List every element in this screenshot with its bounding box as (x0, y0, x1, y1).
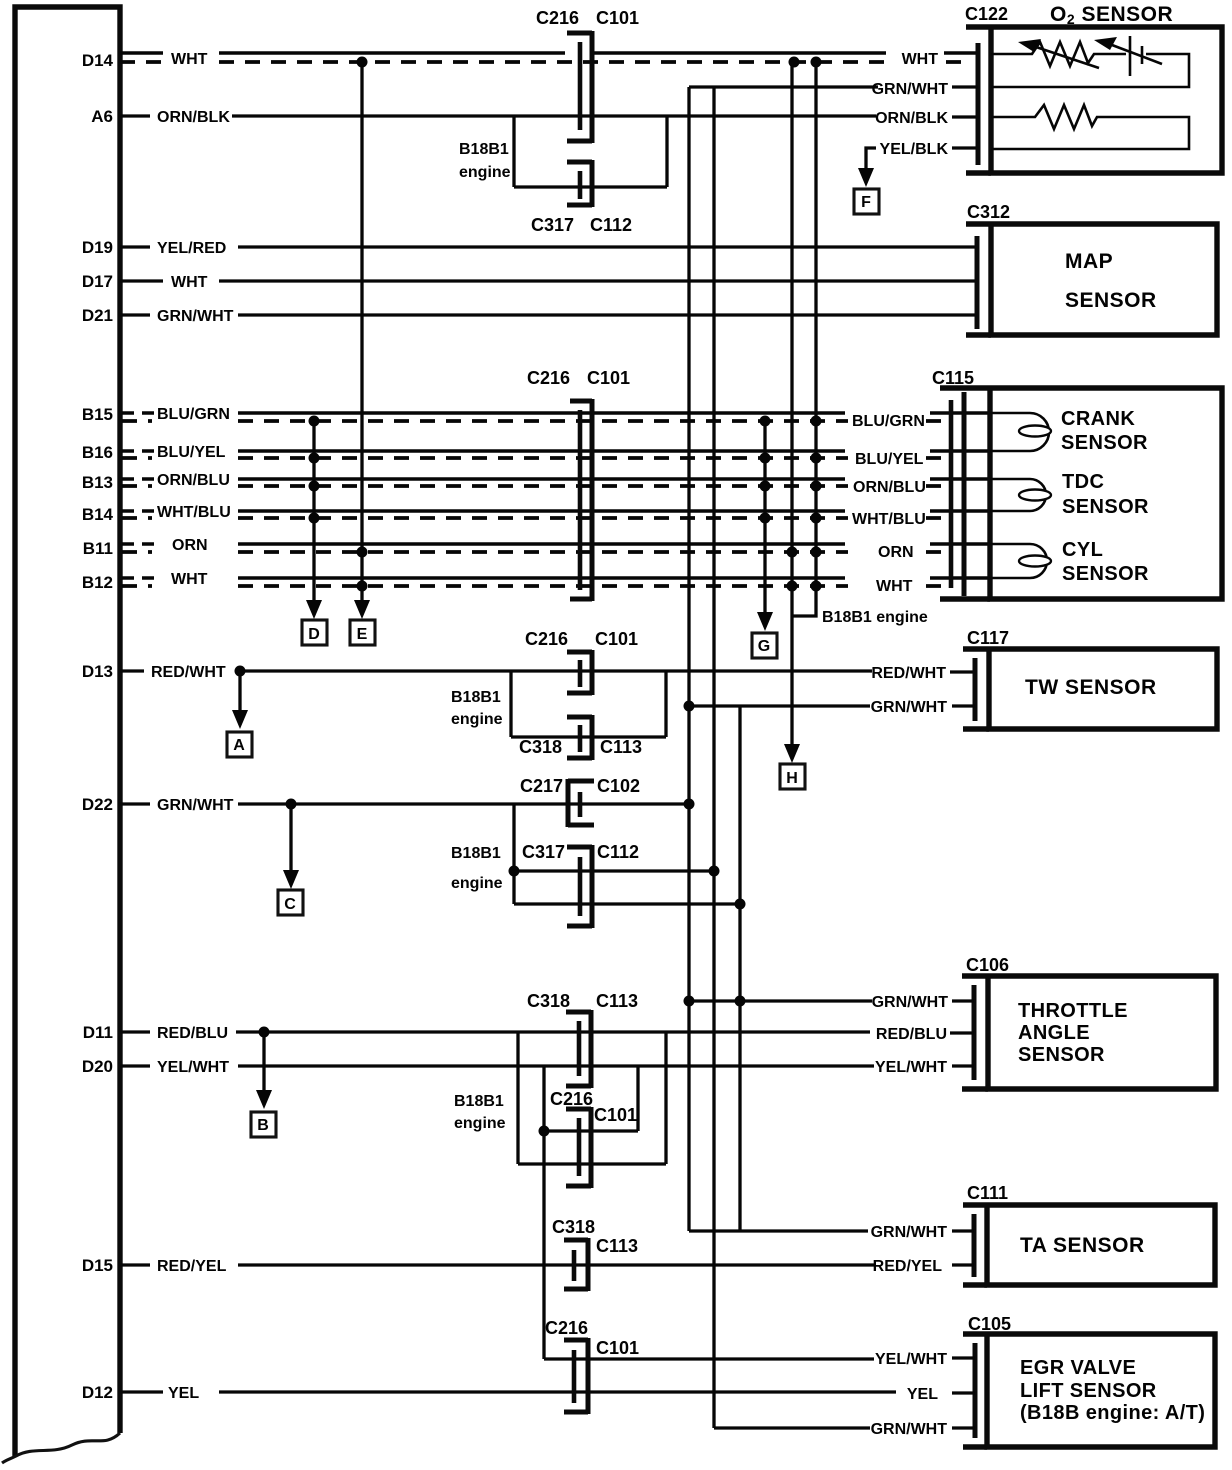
svg-text:WHT: WHT (902, 51, 939, 68)
ground E box (350, 620, 375, 645)
svg-text:D19: D19 (82, 238, 113, 257)
connector C317 C112 (D22) (522, 842, 639, 928)
wire shield drop D (309, 416, 320, 603)
svg-text:TW SENSOR: TW SENSOR (1025, 676, 1157, 699)
svg-text:D21: D21 (82, 306, 113, 325)
svg-text:ORN: ORN (878, 544, 914, 561)
TA sensor box (987, 1205, 1215, 1285)
svg-text:YEL: YEL (168, 1385, 199, 1402)
wire D13 B18B1 bypass (511, 671, 666, 737)
svg-text:C102: C102 (597, 776, 640, 796)
ground H arrowhead (784, 744, 800, 763)
svg-text:C312: C312 (967, 202, 1010, 222)
MAP sensor box (991, 224, 1217, 335)
svg-text:RED/WHT: RED/WHT (151, 664, 226, 681)
svg-text:ANGLE: ANGLE (1018, 1022, 1090, 1044)
svg-text:MAP: MAP (1065, 250, 1113, 273)
svg-text:B11: B11 (83, 539, 113, 558)
wire B16 shield dashed (122, 456, 948, 460)
wire D20 B18B1 bypass (539, 1066, 639, 1137)
svg-text:BLU/GRN: BLU/GRN (852, 413, 925, 430)
wire B14 shield dashed (122, 516, 948, 520)
svg-text:B13: B13 (82, 473, 113, 492)
connector C216 C101 (D11/D20 bypass) (550, 1089, 637, 1188)
svg-text:GRN/WHT: GRN/WHT (157, 308, 234, 325)
svg-text:YEL/BLK: YEL/BLK (880, 141, 949, 158)
svg-text:C317: C317 (531, 215, 574, 235)
svg-text:B18B1: B18B1 (451, 689, 501, 706)
svg-text:engine: engine (459, 164, 511, 181)
svg-text:engine: engine (451, 875, 503, 892)
svg-text:YEL/WHT: YEL/WHT (875, 1059, 947, 1076)
wire B16 BLU/YEL solid (122, 444, 990, 468)
svg-text:SENSOR: SENSOR (1062, 563, 1149, 585)
svg-text:WHT/BLU: WHT/BLU (852, 511, 926, 528)
svg-text:engine: engine (454, 1115, 506, 1132)
svg-text:B18B1: B18B1 (454, 1093, 504, 1110)
svg-text:A: A (233, 737, 245, 754)
wire D13 RED/WHT (120, 664, 975, 682)
svg-text:GRN/WHT: GRN/WHT (871, 1421, 948, 1438)
svg-text:D12: D12 (82, 1383, 113, 1402)
wire D12 YEL (120, 1385, 975, 1403)
svg-text:WHT/BLU: WHT/BLU (157, 504, 231, 521)
ground B arrowhead (256, 1090, 272, 1109)
ground D box (302, 620, 327, 645)
svg-text:RED/BLU: RED/BLU (876, 1026, 947, 1043)
wire B14 WHT/BLU solid (122, 504, 990, 528)
ground C box (278, 890, 303, 915)
wire D11 ground drop B (262, 1032, 265, 1092)
wire D15 RED/YEL (120, 1258, 974, 1275)
svg-text:WHT: WHT (171, 274, 208, 291)
ground E arrowhead (354, 600, 370, 619)
ground A box (227, 732, 252, 757)
label B18B1 engine (D13) (451, 689, 503, 728)
throttle angle sensor box (988, 976, 1216, 1089)
connector C216 C101 (D13) (525, 629, 638, 695)
O2 heater resistor row ORN/BLK-YEL/BLK (991, 105, 1189, 149)
svg-text:TDC: TDC (1062, 471, 1104, 493)
svg-text:WHT: WHT (171, 571, 208, 588)
svg-text:B12: B12 (82, 573, 113, 592)
svg-text:BLU/YEL: BLU/YEL (855, 451, 924, 468)
ground G arrowhead (757, 612, 773, 631)
svg-text:C318: C318 (527, 991, 570, 1011)
svg-text:D22: D22 (82, 795, 113, 814)
svg-text:E: E (357, 626, 368, 643)
svg-text:B: B (257, 1117, 269, 1134)
connector C217 C102 (D22) (520, 776, 640, 827)
ground B box (251, 1112, 276, 1137)
svg-text:BLU/YEL: BLU/YEL (157, 444, 226, 461)
svg-text:D14: D14 (82, 51, 114, 70)
svg-text:B15: B15 (82, 405, 113, 424)
TW sensor connector C117 (963, 628, 1009, 729)
wire GRN/WHT ground bus 714 (712, 87, 715, 1428)
wire D21 GRN/WHT (120, 308, 977, 325)
wire shield bus to H (787, 62, 798, 744)
wire B11 shield dashed (122, 550, 948, 554)
wire D14 WHT solid (120, 51, 978, 68)
svg-text:C318: C318 (552, 1217, 595, 1237)
wire D20 YEL/WHT (120, 1059, 974, 1076)
svg-text:D15: D15 (82, 1256, 113, 1275)
svg-text:B16: B16 (82, 443, 113, 462)
wire D22 B18B1 bypass (509, 804, 746, 910)
TA sensor connector C111 (963, 1183, 1008, 1285)
EGR valve lift sensor connector C105 (963, 1314, 1011, 1447)
svg-text:C122: C122 (965, 4, 1008, 24)
svg-text:GRN/WHT: GRN/WHT (157, 797, 234, 814)
O2 sensor box (991, 3, 1222, 173)
svg-text:YEL/RED: YEL/RED (157, 240, 226, 257)
svg-text:C117: C117 (967, 628, 1009, 648)
ground G box (752, 633, 777, 658)
svg-text:SENSOR: SENSOR (1062, 496, 1149, 518)
svg-text:B14: B14 (82, 505, 114, 524)
svg-text:BLU/GRN: BLU/GRN (157, 406, 230, 423)
svg-text:(B18B engine: A/T): (B18B engine: A/T) (1020, 1402, 1205, 1424)
connector C318 C113 (D11/D20) (527, 991, 638, 1088)
svg-text:C113: C113 (600, 737, 642, 757)
label B18B1 engine (D22) (451, 845, 503, 892)
svg-text:C216: C216 (527, 368, 570, 388)
label B18B1 engine (D11) (454, 1093, 506, 1132)
svg-text:D: D (308, 626, 320, 643)
wire TW GRN/WHT (684, 699, 976, 716)
svg-text:WHT: WHT (876, 578, 913, 595)
svg-text:B18B1 engine: B18B1 engine (822, 609, 928, 626)
wire GRN/WHT ground bus 689 (687, 87, 690, 1231)
svg-text:SENSOR: SENSOR (1061, 432, 1148, 454)
svg-text:C106: C106 (966, 955, 1009, 975)
wire shield drop E (357, 57, 368, 603)
svg-text:C318: C318 (519, 737, 562, 757)
cyl sensor pickup coil (990, 544, 1051, 578)
crank sensor pickup coil (990, 413, 1051, 451)
svg-text:GRN/WHT: GRN/WHT (872, 994, 949, 1011)
connector C216 C101 (crank rows) (527, 368, 630, 601)
svg-text:B18B1: B18B1 (451, 845, 501, 862)
svg-text:C101: C101 (596, 1338, 639, 1358)
svg-text:RED/WHT: RED/WHT (871, 665, 946, 682)
wire B12 shield dashed (122, 584, 948, 588)
wire D19 YEL/RED (120, 240, 977, 257)
svg-text:H: H (786, 770, 798, 787)
svg-text:C101: C101 (587, 368, 630, 388)
svg-text:C112: C112 (590, 215, 632, 235)
wire D22 GRN/WHT (120, 797, 695, 814)
svg-text:GRN/WHT: GRN/WHT (872, 81, 949, 98)
svg-text:C111: C111 (967, 1183, 1008, 1203)
svg-text:engine: engine (451, 711, 503, 728)
svg-text:B18B1: B18B1 (459, 141, 509, 158)
svg-text:G: G (758, 638, 770, 655)
svg-text:C113: C113 (596, 991, 638, 1011)
wire B15 shield dashed (122, 419, 948, 423)
svg-text:C216: C216 (525, 629, 568, 649)
svg-text:ORN/BLK: ORN/BLK (157, 109, 230, 126)
svg-text:TA SENSOR: TA SENSOR (1020, 1234, 1145, 1257)
connector C318 C113 (D15) (552, 1217, 638, 1291)
wire D11 RED/BLU (120, 1025, 974, 1043)
svg-text:D11: D11 (83, 1023, 113, 1042)
wire B12 WHT solid (122, 571, 990, 595)
svg-text:D17: D17 (82, 272, 113, 291)
svg-text:RED/YEL: RED/YEL (873, 1258, 943, 1275)
throttle angle sensor connector C106 (962, 955, 1009, 1089)
wire EGR GRN/WHT (714, 1421, 975, 1438)
label B18B1 engine (top) (459, 141, 511, 181)
svg-text:C216: C216 (545, 1318, 588, 1338)
connector C216 C101 (top) (536, 8, 639, 143)
wire D17 WHT (120, 274, 977, 291)
svg-text:C105: C105 (968, 1314, 1011, 1334)
svg-text:SENSOR: SENSOR (1018, 1044, 1105, 1066)
svg-text:GRN/WHT: GRN/WHT (871, 699, 948, 716)
wire D11 B18B1 bypass (518, 1032, 666, 1164)
svg-text:C113: C113 (596, 1236, 638, 1256)
wire TA GRN/WHT (689, 1224, 974, 1241)
wire EGR YEL/WHT (544, 1131, 975, 1368)
svg-text:C115: C115 (932, 368, 974, 388)
wire shield bus 816 with elbow (792, 62, 822, 616)
svg-text:ORN/BLK: ORN/BLK (875, 110, 948, 127)
MAP sensor connector C312 (966, 202, 1010, 335)
wire A6 ORN/BLK (120, 109, 978, 127)
wire A6 B18B1 bypass (514, 116, 667, 187)
svg-text:C216: C216 (550, 1089, 593, 1109)
svg-text:RED/BLU: RED/BLU (157, 1025, 228, 1042)
wire GRN/WHT ground bus 740 (738, 706, 741, 1231)
svg-text:SENSOR: SENSOR (1065, 289, 1157, 312)
ground D arrowhead (306, 600, 322, 619)
ECM connector bar (2, 7, 120, 1463)
svg-text:THROTTLE: THROTTLE (1018, 1000, 1128, 1022)
ground A arrowhead (232, 710, 248, 729)
svg-text:C101: C101 (594, 1105, 637, 1125)
ground C arrowhead (283, 870, 299, 889)
wire D13 ground drop A (238, 671, 241, 712)
svg-text:GRN/WHT: GRN/WHT (871, 1224, 948, 1241)
tdc sensor pickup coil (990, 479, 1051, 511)
node shield junction 794 (789, 57, 800, 68)
svg-text:YEL/WHT: YEL/WHT (875, 1351, 947, 1368)
svg-text:C101: C101 (595, 629, 638, 649)
svg-text:O2 SENSOR: O2 SENSOR (1050, 3, 1173, 27)
O2 sensing cell (battery symbol with arrow) (991, 36, 1189, 87)
svg-text:ORN/BLU: ORN/BLU (157, 472, 230, 489)
connector C115 (932, 368, 990, 599)
svg-text:YEL/WHT: YEL/WHT (157, 1059, 229, 1076)
EGR valve lift sensor box (987, 1334, 1215, 1447)
svg-text:C317: C317 (522, 842, 565, 862)
wire B13 ORN/BLU solid (122, 472, 990, 496)
TW sensor box (989, 649, 1217, 729)
svg-text:C: C (284, 896, 296, 913)
svg-text:YEL: YEL (907, 1386, 938, 1403)
wire D22 ground drop C (289, 804, 292, 872)
svg-text:CYL: CYL (1062, 539, 1103, 561)
wire B15 BLU/GRN solid (122, 406, 990, 430)
wire D14 WHT shield (dashed) (120, 60, 972, 64)
ground F arrowhead (858, 168, 874, 187)
svg-text:D20: D20 (82, 1057, 113, 1076)
connector C318 C113 (D13) (519, 715, 642, 760)
wire B11 ORN solid (122, 537, 990, 561)
crank/tdc/cyl sensor box (990, 388, 1222, 599)
svg-text:F: F (861, 194, 871, 211)
svg-text:LIFT SENSOR: LIFT SENSOR (1020, 1380, 1157, 1402)
svg-text:WHT: WHT (171, 51, 208, 68)
wire O2 GRN/WHT (689, 81, 978, 98)
svg-text:EGR VALVE: EGR VALVE (1020, 1357, 1136, 1379)
svg-text:ORN/BLU: ORN/BLU (853, 479, 926, 496)
svg-text:CRANK: CRANK (1061, 408, 1135, 430)
svg-text:D13: D13 (82, 662, 113, 681)
svg-text:C216: C216 (536, 8, 579, 28)
connector C216 C101 (D12) (545, 1318, 639, 1414)
ground F box (854, 189, 879, 214)
wire throttle GRN/WHT (684, 994, 975, 1011)
wire YEL/BLK with F drop (866, 141, 978, 170)
wire shield drop G (760, 416, 771, 613)
svg-text:C217: C217 (520, 776, 563, 796)
connector C317 C112 (top) (531, 160, 632, 235)
svg-text:A6: A6 (91, 107, 113, 126)
wire B13 shield dashed (122, 484, 948, 488)
ground H box (780, 764, 805, 789)
svg-text:C101: C101 (596, 8, 639, 28)
O2 sensor connector C122 (965, 4, 1008, 173)
svg-text:RED/YEL: RED/YEL (157, 1258, 227, 1275)
svg-text:ORN: ORN (172, 537, 208, 554)
O2 heater element (variable resistor) (991, 39, 1126, 68)
svg-text:C112: C112 (597, 842, 639, 862)
node shield junction 816 (811, 57, 822, 68)
